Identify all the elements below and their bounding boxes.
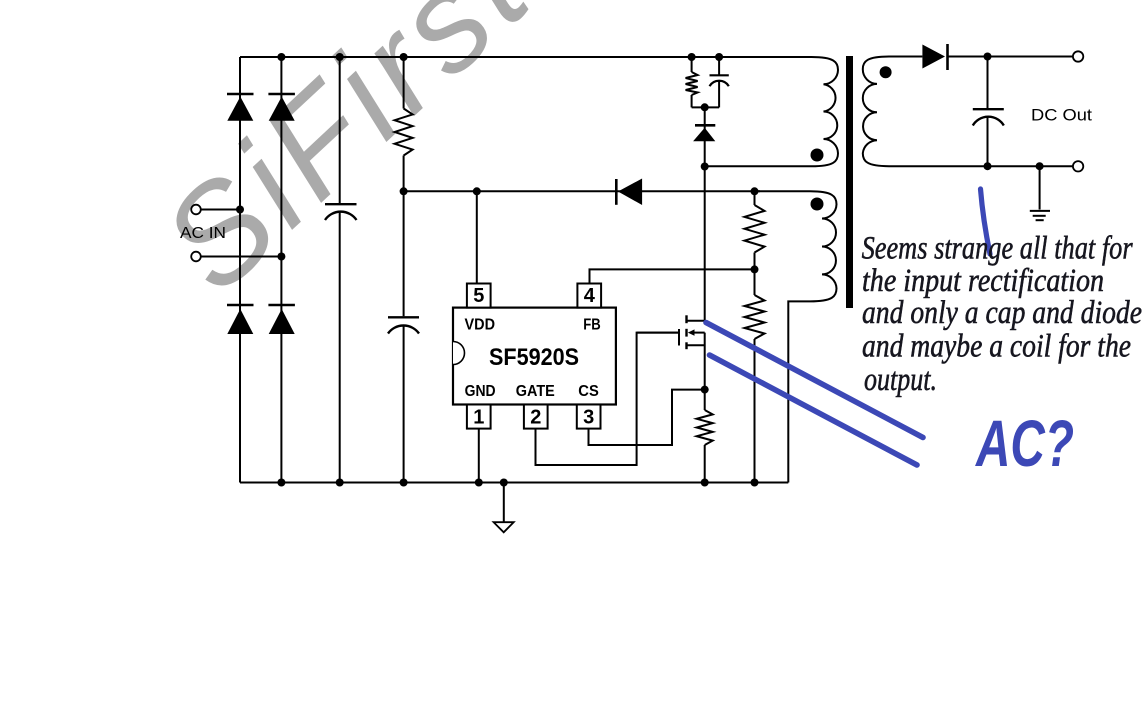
- capacitor C output: [973, 109, 1004, 125]
- node top bus / snubber C: [715, 53, 723, 61]
- wire CS resistor bottom: [704, 445, 706, 483]
- node top bus / D2: [277, 53, 285, 61]
- capacitor C vdd: [388, 317, 419, 333]
- IC pin 5 box: [467, 284, 491, 308]
- svg-text:and maybe a coil for the: and maybe a coil for the: [862, 329, 1131, 365]
- IC notch: [453, 342, 465, 365]
- wire bulk cap column top: [339, 57, 341, 203]
- resistor R fb lower: [745, 295, 765, 339]
- wire snubber resistor bottom: [691, 95, 693, 107]
- node bottom bus D2: [277, 479, 285, 487]
- terminal AC in bottom: [191, 252, 201, 262]
- MOSFET Q1: [637, 315, 705, 349]
- wire AC live lead: [201, 209, 241, 211]
- transformer auxiliary polarity dot: [811, 198, 824, 211]
- svg-text:5: 5: [473, 285, 484, 307]
- wire output cap top: [987, 57, 989, 110]
- terminal AC in top: [191, 205, 201, 215]
- wire MOSFET source column: [704, 333, 706, 410]
- capacitor C snubber: [710, 75, 729, 86]
- wire bridge right column: [280, 57, 282, 483]
- ground stub primary: [503, 483, 505, 523]
- annotation blue pen stroke: [981, 189, 991, 254]
- transformer secondary polarity dot: [880, 66, 892, 78]
- wire output cap bottom: [987, 117, 989, 166]
- capacitor C bulk: [325, 204, 357, 220]
- diode bridge D4: [268, 305, 295, 334]
- ground symbol primary (arrow): [494, 522, 514, 532]
- resistor R fb upper: [745, 205, 765, 253]
- node bottom bus CS resistor: [701, 479, 709, 487]
- wire FB divider top: [754, 191, 756, 205]
- node snubber join: [701, 103, 709, 111]
- diode output D7: [922, 44, 947, 70]
- svg-text:3: 3: [583, 407, 594, 429]
- node FB divider tap: [751, 265, 759, 273]
- wire bridge left column: [239, 57, 241, 483]
- node AC live: [236, 206, 244, 214]
- wire diode to DC+ terminal: [947, 56, 1073, 58]
- wire startup column top: [403, 57, 405, 109]
- IC pin 1 box: [467, 405, 491, 429]
- resistor R startup: [395, 109, 413, 156]
- node dots: [236, 53, 1044, 487]
- svg-text:VDD: VDD: [465, 317, 496, 334]
- wire AC neutral lead: [201, 256, 282, 258]
- transformer primary winding: [705, 57, 838, 166]
- svg-text:GND: GND: [465, 383, 496, 400]
- svg-text:output.: output.: [864, 362, 937, 398]
- IC pin 2 box: [524, 405, 548, 429]
- node source / CS: [701, 386, 709, 394]
- node top bus / snubber R: [688, 53, 696, 61]
- node output ground: [1036, 162, 1044, 170]
- wire CS pin route: [589, 390, 705, 445]
- svg-text:SF5920S: SF5920S: [489, 344, 579, 371]
- svg-text:4: 4: [584, 285, 596, 307]
- transformer core: [846, 56, 853, 308]
- wire snubber join: [692, 106, 720, 108]
- resistor R snubber: [686, 72, 698, 95]
- IC pin 4 box: [577, 284, 601, 308]
- node bottom bus bulk cap: [336, 479, 344, 487]
- wire VDD pin drop: [476, 191, 478, 283]
- wire FB divider bottom: [754, 339, 756, 483]
- node bottom bus startup: [400, 479, 408, 487]
- wire GND pin drop: [478, 429, 480, 483]
- wire startup column mid: [403, 156, 405, 317]
- svg-text:1: 1: [473, 407, 484, 429]
- wire output ground stub: [1039, 166, 1041, 209]
- node bottom bus FB divider: [751, 479, 759, 487]
- node top bus / startup R: [400, 53, 408, 61]
- wire startup column bottom: [403, 325, 405, 483]
- diode bridge D2: [268, 94, 295, 121]
- svg-text:and only a cap and diode: and only a cap and diode: [862, 295, 1142, 331]
- diode bridge D1: [227, 94, 254, 121]
- diode clamp D5: [693, 125, 715, 141]
- wire clamp diode column and MOSFET drain: [704, 107, 706, 320]
- wire snubber branch: [691, 57, 693, 72]
- wire secondary bottom bus: [988, 165, 1073, 167]
- annotation blue slash 2: [710, 355, 918, 465]
- resistor R current sense: [697, 410, 713, 445]
- node output cap bottom: [984, 162, 992, 170]
- svg-text:DC Out: DC Out: [1031, 106, 1092, 125]
- wire FB divider mid: [754, 253, 756, 296]
- svg-text:GATE: GATE: [516, 383, 555, 400]
- svg-text:the input rectification: the input rectification: [862, 263, 1104, 299]
- wire snubber cap bottom: [718, 82, 720, 108]
- IC U1 SF5920S body: [453, 308, 616, 405]
- wire VDD rail: [404, 190, 760, 192]
- wire GATE pin route: [536, 333, 680, 465]
- wire bulk cap column bottom: [339, 212, 341, 483]
- transformer secondary winding: [863, 57, 988, 167]
- node bottom bus ground: [500, 479, 508, 487]
- diode bridge D3: [227, 305, 254, 334]
- node AC neutral: [277, 253, 285, 261]
- node VDD pin tap: [473, 187, 481, 195]
- diode vdd D6: [616, 179, 642, 206]
- transformer primary polarity dot: [811, 149, 824, 162]
- node output cap top: [984, 53, 992, 61]
- IC pin 3 box: [577, 405, 601, 429]
- wire FB pin riser: [590, 269, 755, 283]
- node VDD rail right: [751, 187, 759, 195]
- node bottom bus GND pin: [475, 479, 483, 487]
- ground symbol output (earth): [1030, 211, 1050, 220]
- svg-text:2: 2: [530, 407, 541, 429]
- annotation blue slash 1: [706, 323, 923, 438]
- terminal DC out plus: [1073, 51, 1083, 61]
- node VDD rail left: [400, 187, 408, 195]
- node drain / primary: [701, 163, 709, 171]
- svg-text:AC?: AC?: [975, 406, 1074, 480]
- transformer auxiliary winding: [755, 191, 837, 482]
- svg-text:Seems strange all that for: Seems strange all that for: [862, 231, 1133, 267]
- svg-text:AC IN: AC IN: [180, 225, 226, 242]
- wire bottom bus: [240, 482, 788, 484]
- wire snubber cap top: [718, 57, 720, 75]
- terminal DC out minus: [1073, 161, 1083, 171]
- node top bus / bulk cap: [336, 53, 344, 61]
- wire top bus: [240, 56, 750, 58]
- svg-text:CS: CS: [578, 383, 599, 400]
- svg-text:FB: FB: [583, 317, 601, 334]
